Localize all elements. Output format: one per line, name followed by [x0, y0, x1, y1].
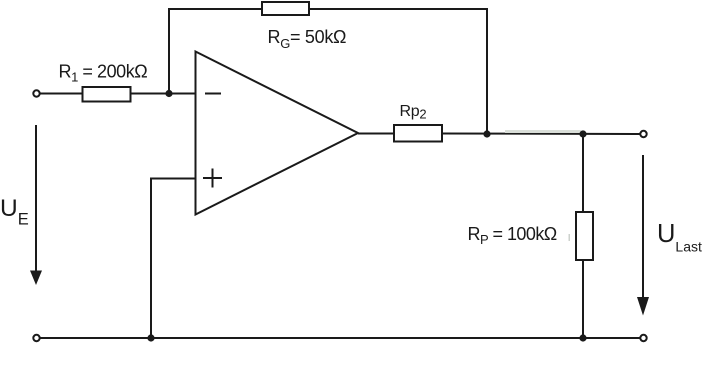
svg-text:Rp2: Rp2 [400, 103, 427, 122]
